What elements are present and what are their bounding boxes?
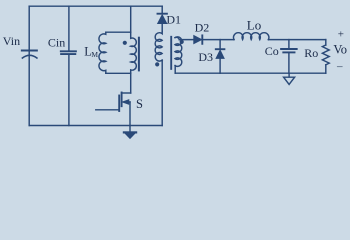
wire Cin branch top bbox=[68, 6, 70, 50]
transformer secondary winding bbox=[175, 37, 182, 67]
svg-text:D2: D2 bbox=[195, 21, 210, 35]
wire Co branch bbox=[288, 40, 290, 49]
wire Cin branch bottom bbox=[68, 55, 70, 126]
source Vin bbox=[22, 51, 37, 59]
svg-text:M: M bbox=[91, 50, 98, 59]
svg-text:D3: D3 bbox=[198, 50, 213, 64]
diode D3 bbox=[216, 49, 225, 73]
svg-text:D1: D1 bbox=[166, 12, 181, 26]
inductor Lo bbox=[234, 33, 269, 40]
wire switch source down to ground bbox=[129, 102, 131, 132]
svg-text:Vin: Vin bbox=[3, 34, 20, 48]
transformer core bar 1 bbox=[138, 38, 140, 71]
node dot secondary polarity bbox=[180, 40, 184, 44]
wire secondary top to D2 bbox=[179, 39, 194, 41]
svg-text:S: S bbox=[136, 97, 143, 111]
svg-text:Cin: Cin bbox=[48, 36, 65, 50]
wire output right vertical bbox=[325, 40, 327, 45]
wire top rail bbox=[29, 5, 162, 7]
node dot reset winding polarity bbox=[155, 62, 159, 66]
transformer reset winding bbox=[155, 31, 162, 61]
wire Ro bottom bbox=[325, 65, 327, 73]
transformer core bar 2 bbox=[170, 37, 172, 69]
wire bottom rail bbox=[29, 125, 162, 127]
transistor S (MOSFET) bbox=[96, 73, 131, 111]
wire D2 to Lo bbox=[202, 39, 234, 41]
svg-text:+: + bbox=[338, 28, 344, 40]
wire Lo to output corner bbox=[268, 39, 325, 41]
capacitor Cin bbox=[61, 51, 76, 54]
wire Vin branch bbox=[28, 6, 30, 125]
ground secondary (open triangle) bbox=[284, 73, 295, 84]
node dot primary polarity bbox=[123, 41, 127, 45]
diode D2 bbox=[194, 35, 203, 43]
svg-text:Lo: Lo bbox=[247, 17, 261, 32]
diode D1 bbox=[158, 6, 167, 31]
svg-text:Ro: Ro bbox=[304, 46, 318, 60]
resistor Ro bbox=[322, 45, 329, 65]
wire bottom rail secondary bbox=[175, 72, 326, 74]
svg-text:Vo: Vo bbox=[333, 43, 347, 57]
inductor LM (left side of loop) bbox=[99, 32, 131, 73]
capacitor Co bbox=[281, 49, 297, 52]
wire secondary bottom bbox=[174, 66, 176, 74]
transformer primary winding (right side of loop) bbox=[131, 32, 137, 73]
ground primary (filled) bbox=[124, 132, 136, 138]
wire rail to transformer node bbox=[130, 6, 132, 32]
wire reset winding to bottom rail bbox=[161, 60, 163, 125]
svg-text:–: – bbox=[336, 60, 343, 72]
wire Co bottom bbox=[288, 53, 290, 73]
wire D3 branch bbox=[219, 40, 221, 49]
svg-text:Co: Co bbox=[265, 44, 279, 58]
